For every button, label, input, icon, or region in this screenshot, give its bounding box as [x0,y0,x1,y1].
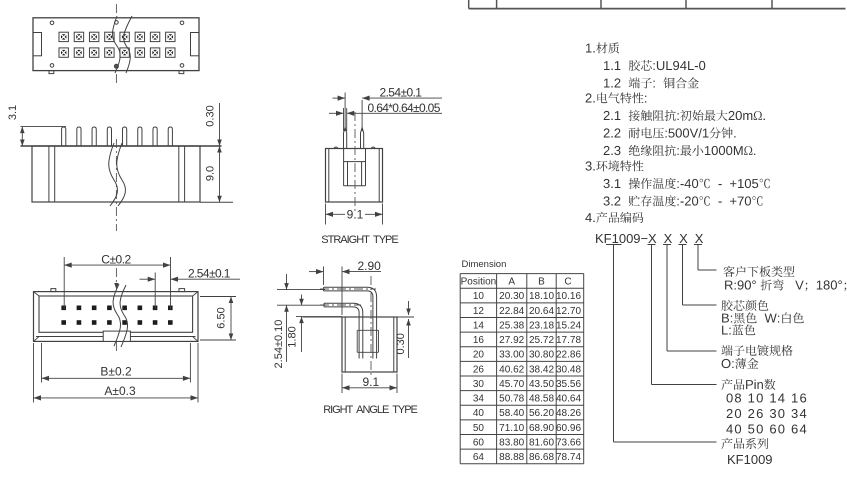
svg-text:0.30: 0.30 [205,105,217,126]
svg-text:20 26 30 34: 20 26 30 34 [726,406,808,421]
svg-text:83.80: 83.80 [499,437,524,448]
svg-text:RIGHT ANGLE TYPE: RIGHT ANGLE TYPE [323,404,417,416]
svg-text:10: 10 [473,291,485,302]
svg-text:22.84: 22.84 [499,306,524,317]
svg-text:12.70: 12.70 [556,306,581,317]
svg-text:40.62: 40.62 [499,364,524,375]
svg-text:81.60: 81.60 [529,437,554,448]
svg-text:17.78: 17.78 [556,335,581,346]
svg-text:A: A [508,276,515,287]
svg-text:14: 14 [473,320,485,331]
svg-text:45.70: 45.70 [499,379,524,390]
svg-text:30: 30 [473,379,485,390]
svg-text:15.24: 15.24 [556,320,581,331]
svg-text:08 10 14 16: 08 10 14 16 [726,391,808,406]
svg-text:Dimension: Dimension [462,259,507,270]
svg-text:27.92: 27.92 [499,335,524,346]
svg-text:A±0.3: A±0.3 [104,384,136,398]
svg-text:25.38: 25.38 [499,320,524,331]
svg-text:1.80: 1.80 [287,326,299,347]
svg-text:16: 16 [473,335,485,346]
svg-text:40: 40 [473,408,485,419]
svg-text:60: 60 [473,437,485,448]
svg-text:0.64*0.64±0.05: 0.64*0.64±0.05 [368,101,441,115]
svg-text:50: 50 [473,423,485,434]
svg-text:73.66: 73.66 [556,437,581,448]
svg-text:68.90: 68.90 [529,423,554,434]
svg-text:78.74: 78.74 [556,452,581,463]
svg-text:23.18: 23.18 [529,320,554,331]
svg-text:38.42: 38.42 [529,364,554,375]
svg-text:Position: Position [461,276,497,287]
svg-text:22.86: 22.86 [556,350,581,361]
svg-text:50.78: 50.78 [499,394,524,405]
svg-text:56.20: 56.20 [529,408,554,419]
svg-text:2.54±0.1: 2.54±0.1 [188,267,231,281]
svg-text:X: X [648,231,657,246]
svg-text:88.88: 88.88 [499,452,524,463]
svg-text:3.1: 3.1 [7,105,19,120]
svg-text:18.10: 18.10 [529,291,554,302]
svg-text:48.26: 48.26 [556,408,581,419]
svg-text:20.30: 20.30 [499,291,524,302]
svg-text:C: C [564,276,571,287]
svg-text:STRAIGHT TYPE: STRAIGHT TYPE [321,234,398,246]
svg-text:43.50: 43.50 [529,379,554,390]
svg-text:71.10: 71.10 [499,423,524,434]
svg-text:26: 26 [473,364,485,375]
svg-text:60.96: 60.96 [556,423,581,434]
svg-text:20.64: 20.64 [529,306,554,317]
svg-text:X: X [695,231,704,246]
svg-text:33.00: 33.00 [499,350,524,361]
svg-text:34: 34 [473,394,485,405]
svg-text:10.16: 10.16 [556,291,581,302]
svg-text:30.48: 30.48 [556,364,581,375]
svg-text:2.90: 2.90 [358,259,382,273]
svg-text:25.72: 25.72 [529,335,554,346]
svg-text:86.68: 86.68 [529,452,554,463]
svg-text:58.40: 58.40 [499,408,524,419]
svg-text:0.30: 0.30 [395,333,407,354]
svg-text:20: 20 [473,350,485,361]
svg-text:X: X [664,231,673,246]
svg-text:2.54±0.10: 2.54±0.10 [273,320,285,369]
svg-text:B: B [538,276,545,287]
svg-text:9.1: 9.1 [362,375,379,389]
svg-text:2.54±0.1: 2.54±0.1 [380,86,423,100]
svg-text:6.50: 6.50 [216,307,228,328]
svg-text:35.56: 35.56 [556,379,581,390]
svg-text:B±0.2: B±0.2 [100,364,132,378]
svg-text:9.0: 9.0 [205,166,217,181]
svg-text:C±0.2: C±0.2 [101,253,131,267]
svg-text:12: 12 [473,306,485,317]
svg-text:48.58: 48.58 [529,394,554,405]
svg-text:KF1009: KF1009 [727,452,773,467]
svg-text:64: 64 [473,452,485,463]
svg-text:KF1009−: KF1009− [595,231,648,246]
svg-text:30.80: 30.80 [529,350,554,361]
svg-text:40 50 60 64: 40 50 60 64 [726,422,808,437]
svg-text:40.64: 40.64 [556,394,581,405]
svg-text:X: X [679,231,688,246]
